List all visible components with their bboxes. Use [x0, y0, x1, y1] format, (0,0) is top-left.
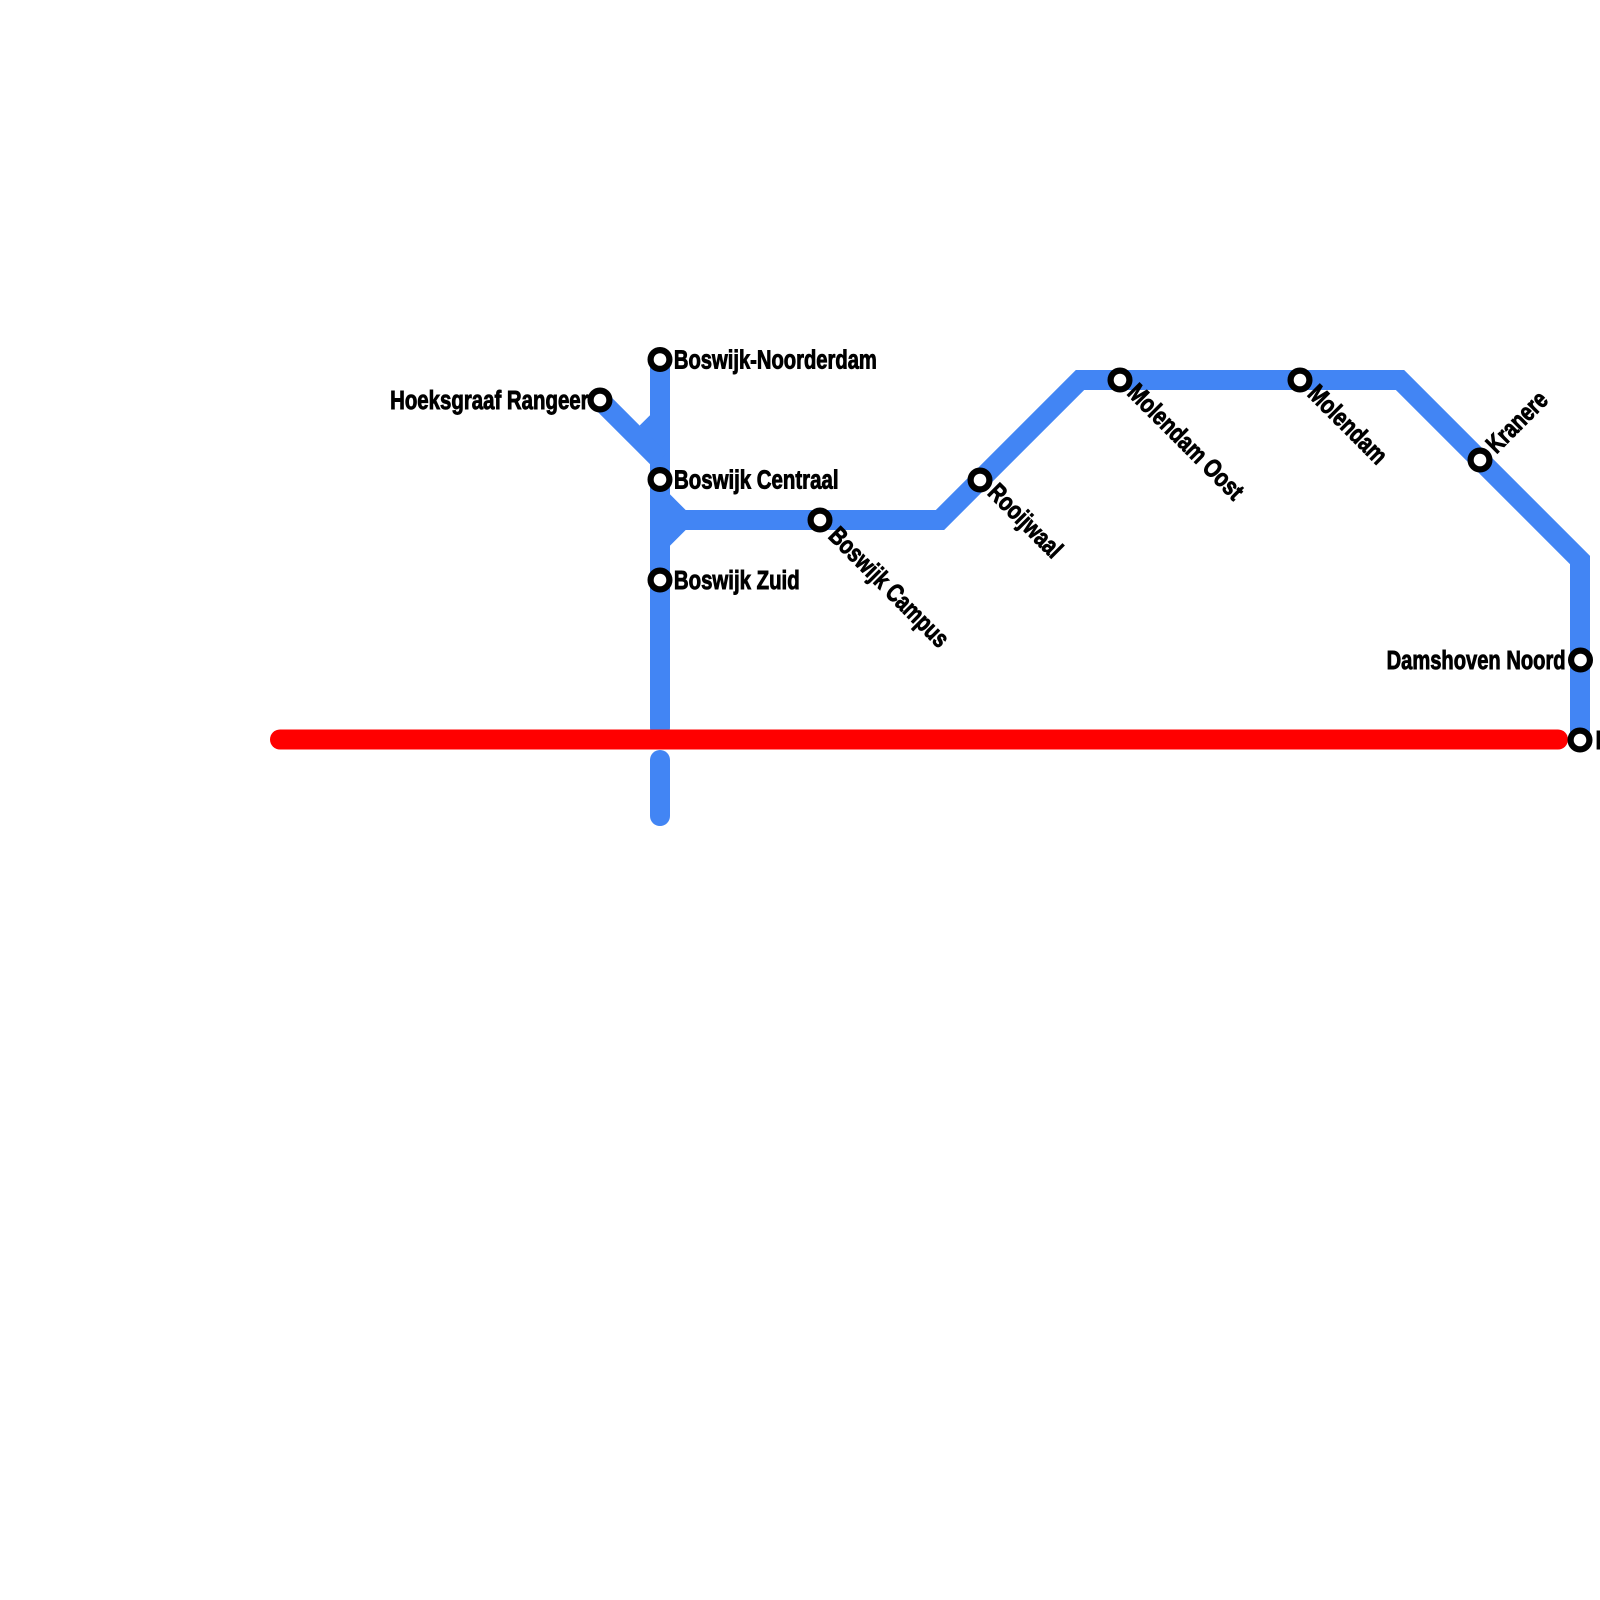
- blue line: stub segment below red line: [650, 760, 670, 816]
- blue line: main branch east via Campus, Rooijwaal, Molendam, Kranere to terminus: [682, 380, 1581, 740]
- svg-text:Boswijk-Noorderdam: Boswijk-Noorderdam: [674, 347, 877, 375]
- station circle Hoeksgraaf Rangeer: [591, 391, 610, 410]
- station circle Rooijwaal: [971, 471, 990, 490]
- station circle Damshoven (terminus, at right edge): [1571, 731, 1590, 750]
- station circle Boswijk Campus: [811, 511, 830, 530]
- blue line: main vertical Boswijk-Noorderdam to below red crossing: [650, 359, 670, 728]
- station circle Boswijk Centraal: [651, 470, 670, 489]
- station circle Molendam Oost: [1111, 371, 1130, 390]
- station circle Damshoven Noord: [1571, 651, 1590, 670]
- svg-text:Boswijk Zuid: Boswijk Zuid: [674, 567, 800, 595]
- svg-text:Damshoven: Damshoven: [1596, 727, 1600, 755]
- svg-text:Damshoven Noord: Damshoven Noord: [1387, 647, 1566, 675]
- svg-text:Hoeksgraaf Rangeer: Hoeksgraaf Rangeer: [390, 387, 589, 415]
- bevel artifact at Rangeer junction: [640, 415, 660, 438]
- station circle Kranere: [1471, 451, 1490, 470]
- blue line: junction connector upper (Centraal fork): [660, 499, 682, 521]
- blue line: Hoeksgraaf Rangeer branch: [600, 400, 660, 460]
- station circle Boswijk-Noorderdam: [651, 350, 670, 369]
- svg-text:Boswijk Centraal: Boswijk Centraal: [674, 466, 839, 494]
- blue line: junction connector lower (Centraal fork): [660, 520, 682, 542]
- station circle Molendam: [1291, 371, 1310, 390]
- station circle Boswijk Zuid: [651, 571, 670, 590]
- red line: [280, 730, 1558, 750]
